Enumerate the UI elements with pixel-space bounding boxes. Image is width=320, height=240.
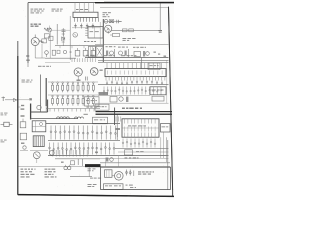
resistor row 2 xyxy=(48,95,98,106)
label connector J1 xyxy=(76,9,88,10)
wire V x89 bottom xyxy=(88,167,90,176)
wire amp feeds xyxy=(106,156,119,168)
wire thick V x30.5 xyxy=(30,104,32,120)
parts left col upper xyxy=(18,105,25,110)
label bus mid xyxy=(104,55,115,56)
IC U5 xyxy=(122,119,159,137)
wire stub x28 xyxy=(26,55,30,67)
wire H at 158.8 xyxy=(55,158,169,160)
transistor Q6 xyxy=(90,68,102,76)
amp section box xyxy=(101,167,171,189)
bus wire B9 xyxy=(48,155,169,157)
label IF section xyxy=(123,38,136,41)
label title block xyxy=(31,9,45,14)
wire V x70 xyxy=(69,16,71,60)
wire H at 163 xyxy=(100,162,170,164)
label amp left xyxy=(88,168,96,171)
capacitor C7 xyxy=(49,36,53,40)
misc marks row48 xyxy=(57,50,72,53)
label right of rev xyxy=(126,185,137,188)
wire V x50 xyxy=(49,30,51,58)
crystal X1 xyxy=(109,19,114,23)
transistor Q1 xyxy=(31,35,45,59)
wire V x46 xyxy=(45,78,47,112)
node N1 xyxy=(26,55,29,57)
bus wire B6 xyxy=(31,118,78,120)
transformer T1 xyxy=(33,136,44,147)
speaker SP1 xyxy=(112,172,123,181)
inductor L1 xyxy=(57,117,70,119)
dark bar xyxy=(85,164,101,167)
wire H at 176.6 xyxy=(70,176,92,178)
pins U3 bottom xyxy=(106,77,165,81)
label bottom block B xyxy=(45,169,57,178)
bus wire B5 xyxy=(98,84,169,86)
label bus right xyxy=(121,55,136,56)
label bottom block A xyxy=(21,169,36,178)
misc right marks xyxy=(154,52,167,57)
label edge 140 xyxy=(1,140,7,143)
wire H at 148.6 xyxy=(115,148,169,150)
wire V x114.5 xyxy=(114,108,116,126)
group G1 box xyxy=(88,47,103,58)
small box 150s xyxy=(125,150,144,155)
transistor QL xyxy=(37,105,41,109)
label under U2 xyxy=(84,41,96,42)
terminal T1 xyxy=(2,97,6,102)
wire bottom border xyxy=(18,195,174,197)
label box line-out xyxy=(95,104,109,110)
bus wire B3 xyxy=(98,59,169,61)
wire H at 95.5 xyxy=(98,95,150,97)
wire left border upper xyxy=(27,3,29,63)
label Blower xyxy=(31,24,42,27)
capacitor C21 xyxy=(117,20,121,24)
diode D2 xyxy=(61,37,64,41)
label TTL xyxy=(84,114,88,115)
ticks bottom left xyxy=(53,150,87,157)
transistor Q4 xyxy=(45,51,49,57)
wire right border xyxy=(169,7,173,196)
transistor Q7 xyxy=(33,152,40,163)
component row 2 under U3 xyxy=(103,87,162,95)
node plus xyxy=(18,98,32,100)
resistor R6 xyxy=(44,34,49,38)
transformer T2 xyxy=(105,170,113,178)
node cross xyxy=(107,31,110,34)
pins U3 top xyxy=(107,63,162,69)
wire connector feeds xyxy=(75,3,93,13)
label amp right xyxy=(138,171,154,174)
capacitor C15 xyxy=(86,77,88,81)
wire top border xyxy=(28,1,174,4)
wire H at 166.5 xyxy=(18,166,88,168)
capacitor C10 xyxy=(83,48,88,56)
IC U4 xyxy=(150,87,166,95)
regulator VR2 xyxy=(161,124,171,132)
parts left col xyxy=(20,115,28,150)
wire main vertical V1 xyxy=(102,19,104,62)
bus wire B4 xyxy=(98,62,169,64)
parts above amp xyxy=(95,152,113,162)
IC U3 xyxy=(105,69,166,77)
wire H at 30 xyxy=(112,29,159,31)
wire V at 160 xyxy=(158,3,162,33)
label 071 group xyxy=(106,46,116,57)
transistor Q3pre xyxy=(48,26,52,33)
wire V x166.8 xyxy=(166,60,168,103)
label bus left xyxy=(86,55,95,56)
component row under U3 xyxy=(106,81,163,85)
bus wire B7 xyxy=(46,122,120,124)
connector J1 xyxy=(73,12,99,22)
label left of Q5 xyxy=(38,66,51,67)
bus wire dark1 xyxy=(96,111,173,113)
wire H at 150.5 left xyxy=(30,150,48,152)
wire V x40.5 xyxy=(40,75,42,113)
capacitor C11 xyxy=(91,48,96,56)
bus wire B1 xyxy=(45,58,76,62)
transistor Q3a xyxy=(73,33,78,38)
resistor R9 xyxy=(52,50,55,55)
resistor R21 xyxy=(110,33,120,36)
bus wire dark2 xyxy=(96,113,173,115)
wire ladder x63 xyxy=(62,28,65,46)
capacitor C5 xyxy=(62,30,66,36)
label edge 113 xyxy=(1,113,8,116)
label under wire xyxy=(90,178,101,179)
resistor R1 xyxy=(39,39,46,43)
bus wire B8 xyxy=(48,139,120,141)
trimmer VR3 xyxy=(64,165,71,170)
box IF detector xyxy=(85,97,100,106)
wires V right trio xyxy=(161,132,167,162)
label mid text xyxy=(87,107,98,108)
wire H at 99.8 xyxy=(5,99,18,101)
component row under U5 xyxy=(122,139,156,148)
resistor R5 xyxy=(44,28,51,31)
label edge top xyxy=(22,80,33,83)
transistor Q8 xyxy=(49,150,54,155)
wire right inner top xyxy=(100,6,169,8)
inductor L21 xyxy=(123,29,134,32)
wire V x47.5 xyxy=(31,100,48,113)
parts bottom mid xyxy=(61,161,75,165)
wire V x100 xyxy=(99,22,101,45)
wire V x117 xyxy=(116,114,118,140)
transistor Q2 xyxy=(104,19,112,32)
wire V right border inner xyxy=(167,140,169,190)
capacitor row M2 xyxy=(49,143,115,155)
capacitor CL1 xyxy=(20,119,26,128)
wire H at 166.6 xyxy=(100,166,170,168)
ticks under 108 xyxy=(50,109,94,112)
wire H at 45.5 xyxy=(55,46,103,49)
IC U2 xyxy=(85,27,103,39)
wire V x78 xyxy=(78,159,82,166)
bus wire B2 xyxy=(85,57,169,59)
wire H at 103 xyxy=(95,102,169,104)
capacitor CL2 xyxy=(20,133,26,140)
wire under J1 xyxy=(72,27,100,29)
label E-number xyxy=(103,12,111,17)
ticks under B1 xyxy=(72,58,95,62)
resistor block right xyxy=(152,96,164,101)
wire H at 108.5 xyxy=(46,108,100,110)
resistor row 1 xyxy=(48,82,98,92)
parts cluster mid xyxy=(99,92,129,102)
wire H at 152 xyxy=(118,151,169,153)
label power bus xyxy=(122,108,142,109)
wire V x57 xyxy=(52,24,70,45)
wire V x42 xyxy=(41,41,44,58)
parts left of U5 xyxy=(116,117,121,138)
box above U3 xyxy=(142,58,161,70)
inductor L2 xyxy=(75,117,84,119)
frame overlay xyxy=(18,3,174,197)
capacitor CB1 xyxy=(125,170,133,177)
scan speckle xyxy=(20,5,170,195)
revision box xyxy=(104,184,124,190)
connector edge xyxy=(1,122,13,126)
label above amp xyxy=(125,157,139,158)
label rev box xyxy=(88,184,97,187)
capacitor row under J1 xyxy=(74,24,94,29)
box oscillator xyxy=(93,117,108,124)
capacitor row M1 xyxy=(50,126,116,140)
diode D1 xyxy=(14,98,17,102)
relay K1 xyxy=(32,121,46,132)
label group2 xyxy=(118,47,129,57)
capacitor C9 xyxy=(75,48,80,56)
wire H at 21 xyxy=(103,21,122,23)
wire left border lower xyxy=(17,41,19,195)
label notes block xyxy=(52,9,63,12)
wire H at 44.5 xyxy=(95,44,169,46)
label group3 xyxy=(133,47,149,57)
transistor Q5 xyxy=(74,68,82,81)
